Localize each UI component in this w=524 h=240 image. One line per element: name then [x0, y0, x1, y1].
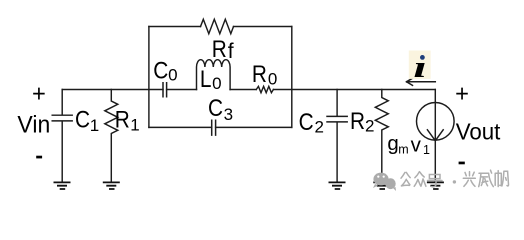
svg-text:0: 0 — [268, 70, 277, 89]
wire feedback box right vertical — [291, 27, 293, 128]
wire C3 branch left segment — [149, 126, 212, 128]
svg-text:R: R — [212, 34, 227, 62]
ground R2 — [373, 182, 390, 189]
resistor Rf — [201, 19, 234, 33]
wire C0 to L0 — [167, 89, 197, 91]
wire L0 to R0 — [230, 89, 256, 91]
svg-text:R: R — [350, 106, 365, 134]
wire top loop left segment — [149, 26, 201, 28]
resistor R1 — [105, 90, 118, 183]
current label i highlight — [409, 51, 431, 79]
svg-text:Vin: Vin — [17, 111, 50, 139]
svg-text:3: 3 — [224, 105, 233, 124]
svg-text:0: 0 — [212, 74, 221, 93]
svg-text:0: 0 — [168, 66, 177, 85]
svg-text:Vout: Vout — [456, 118, 501, 144]
wire C3 branch right segment — [216, 126, 292, 128]
capacitor C2 — [327, 90, 347, 183]
node output label minus — [459, 162, 465, 165]
ground R1 — [103, 182, 120, 189]
wire R0 to right node — [273, 89, 291, 91]
wire right node to current source — [292, 89, 436, 91]
svg-text:+: + — [455, 82, 469, 108]
resistor R0 — [256, 86, 273, 92]
ground current source — [427, 182, 444, 189]
svg-text:ı: ı — [413, 49, 426, 84]
watermark text gongzhonghao xingweifan — [401, 170, 509, 187]
capacitor C3 — [212, 120, 216, 135]
svg-text:1: 1 — [130, 115, 139, 134]
svg-text:+: + — [32, 82, 46, 108]
current label i dot — [420, 55, 425, 60]
svg-text:2: 2 — [365, 117, 374, 136]
svg-text:C: C — [153, 56, 168, 84]
capacitor C0 — [163, 83, 167, 97]
current source arrow down — [427, 130, 443, 141]
ground C1 — [54, 182, 71, 189]
watermark middle dot — [453, 180, 456, 183]
svg-text:R: R — [252, 59, 267, 87]
current source U1 circle gm*v1 — [417, 103, 455, 141]
svg-text:C: C — [75, 105, 90, 133]
wire feedback box left vertical — [148, 27, 150, 128]
svg-text:L: L — [200, 64, 212, 92]
ground C2 — [329, 182, 346, 189]
wire current source branch — [434, 90, 436, 183]
node input label minus — [36, 156, 42, 159]
wire top loop right segment — [234, 26, 292, 28]
wire main line Vin node to C0 — [62, 89, 163, 91]
resistor R2 — [375, 90, 388, 183]
watermark logo wechat bubbles — [373, 173, 396, 191]
svg-text:R: R — [115, 105, 130, 133]
current arrow i pointing left — [407, 78, 436, 85]
inductor L0 — [197, 60, 231, 90]
svg-text:C: C — [208, 94, 223, 122]
capacitor C1 — [52, 90, 72, 183]
svg-text:f: f — [228, 40, 234, 63]
svg-text:C: C — [299, 107, 314, 135]
svg-text:1: 1 — [90, 116, 99, 135]
svg-text:2: 2 — [315, 118, 324, 137]
